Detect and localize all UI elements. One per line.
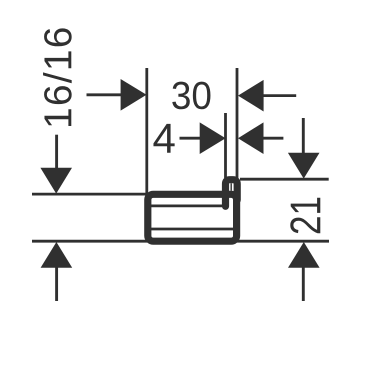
reference line R3 (lip top face) [240, 178, 329, 181]
stem of left down arrow [55, 135, 58, 169]
arrow left at line B (dim 4) [238, 122, 264, 154]
arrow left at line B (dim 30) [238, 80, 264, 112]
inner bottom line [151, 228, 234, 231]
stem of left up arrow [55, 267, 58, 302]
stem of right up arrow [302, 267, 305, 302]
part lip (hook) with hanging leg [226, 180, 238, 207]
left up arrow at line R2 [41, 242, 73, 268]
dimension text 30 [172, 82, 210, 110]
part body outline (rounded box) [148, 194, 237, 241]
dimension text 16/16 [43, 28, 72, 126]
arrow right at line C (dim 4) [200, 122, 226, 154]
right down arrow at line R3 [288, 153, 320, 179]
extension line B (part right face) [236, 68, 239, 178]
dimension line 4 right tail [262, 137, 283, 140]
leader line 16/16 [87, 93, 124, 96]
extension line L1 (part left face) [145, 68, 148, 197]
stem of right down arrow [302, 118, 305, 154]
extension line C (lip left face) [224, 113, 227, 178]
reference line R1 (body top face) [32, 193, 150, 196]
slot seam hairline [230, 183, 232, 191]
leader line 4 [180, 137, 202, 140]
dimension text 21 [290, 198, 320, 234]
arrow right at line L1 [121, 79, 147, 111]
dimension text 4 [153, 124, 174, 153]
inner top line joining hook [151, 205, 223, 208]
left down arrow at line R1 [40, 168, 72, 194]
reference line R2-R4 (bottom face) [32, 240, 329, 243]
dimension line 30 right tail [262, 94, 296, 97]
right up arrow at line R4 [288, 242, 320, 268]
